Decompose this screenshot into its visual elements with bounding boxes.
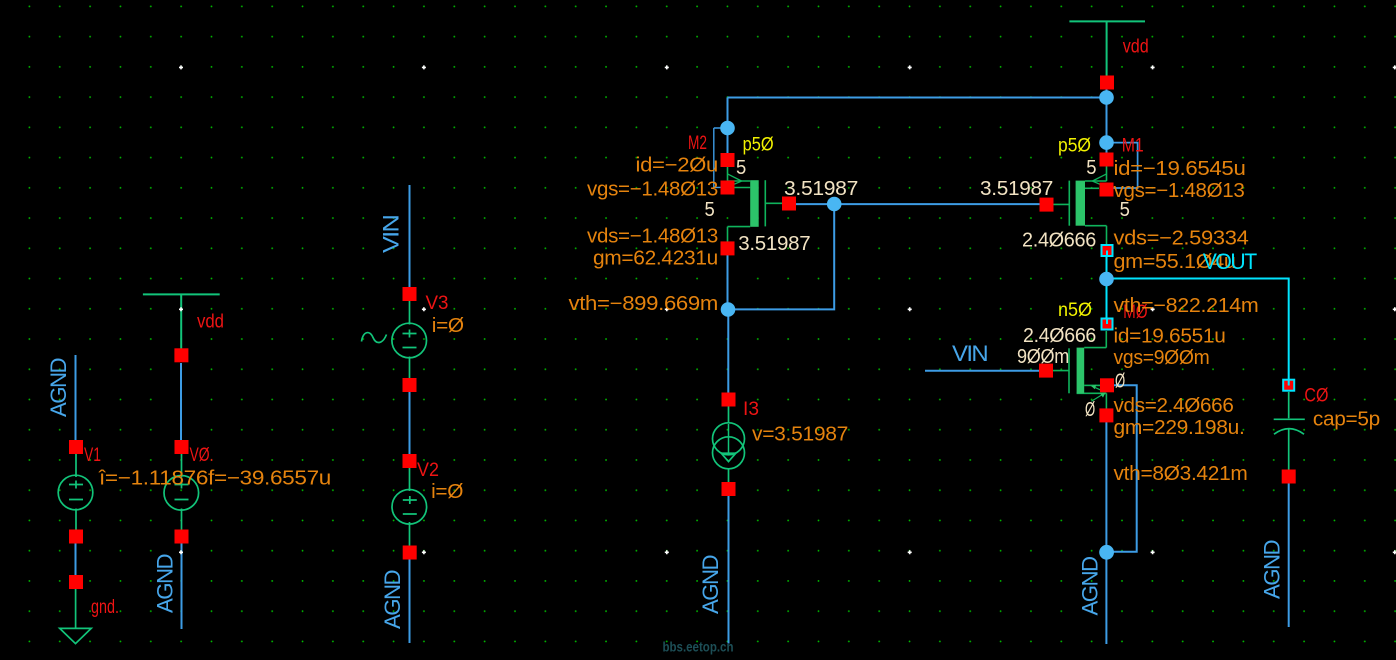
svg-text:VOUT: VOUT bbox=[1203, 249, 1257, 274]
svg-text:I3: I3 bbox=[743, 399, 759, 420]
svg-text:vdd: vdd bbox=[197, 312, 224, 333]
svg-text:3.51987: 3.51987 bbox=[738, 233, 810, 255]
svg-text:V2: V2 bbox=[417, 460, 439, 481]
svg-text:p5Ø: p5Ø bbox=[743, 135, 774, 156]
svg-text:AGND: AGND bbox=[698, 555, 723, 614]
svg-text:5: 5 bbox=[705, 199, 715, 221]
svg-text:gnd.: gnd. bbox=[91, 597, 119, 618]
svg-text:2.4Ø666: 2.4Ø666 bbox=[1022, 230, 1096, 252]
svg-text:M2: M2 bbox=[688, 133, 707, 154]
svg-text:vds=−1.48Ø13: vds=−1.48Ø13 bbox=[587, 226, 718, 248]
svg-text:gm=62.4231u: gm=62.4231u bbox=[593, 248, 718, 270]
svg-text:n5Ø: n5Ø bbox=[1058, 300, 1092, 321]
svg-text:vgs=−1.48Ø13: vgs=−1.48Ø13 bbox=[1114, 180, 1245, 202]
svg-text:vds=−2.59334: vds=−2.59334 bbox=[1114, 228, 1249, 250]
svg-text:VIN: VIN bbox=[952, 341, 988, 366]
svg-text:vth=8Ø3.421m: vth=8Ø3.421m bbox=[1114, 463, 1248, 485]
svg-text:Ø: Ø bbox=[1115, 371, 1125, 393]
svg-text:9ØØm: 9ØØm bbox=[1017, 346, 1069, 368]
svg-text:AGND: AGND bbox=[46, 358, 71, 417]
svg-text:V3: V3 bbox=[426, 293, 449, 314]
svg-text:cap=5p: cap=5p bbox=[1313, 409, 1380, 431]
svg-text:3.51987: 3.51987 bbox=[784, 178, 858, 200]
svg-text:v=3.51987: v=3.51987 bbox=[752, 424, 848, 446]
svg-text:id=−19.6545u: id=−19.6545u bbox=[1114, 158, 1246, 180]
svg-text:CØ: CØ bbox=[1304, 385, 1328, 406]
svg-text:VIN: VIN bbox=[379, 215, 404, 253]
svg-text:id=19.6551u: id=19.6551u bbox=[1114, 326, 1226, 348]
svg-text:i=Ø: i=Ø bbox=[432, 315, 464, 337]
svg-text:5: 5 bbox=[1120, 199, 1130, 221]
svg-text:vdd: vdd bbox=[1123, 36, 1149, 57]
svg-text:AGND: AGND bbox=[1260, 540, 1285, 599]
svg-text:p5Ø: p5Ø bbox=[1058, 136, 1091, 157]
svg-text:AGND: AGND bbox=[1078, 557, 1103, 616]
svg-text:AGND: AGND bbox=[380, 570, 405, 629]
svg-text:3.51987: 3.51987 bbox=[980, 178, 1053, 200]
svg-text:5: 5 bbox=[736, 157, 746, 179]
svg-text:gm=229.198u.: gm=229.198u. bbox=[1114, 417, 1245, 439]
svg-text:V1: V1 bbox=[84, 445, 101, 466]
svg-text:vth=−899.669m: vth=−899.669m bbox=[569, 293, 719, 315]
svg-text:2.4Ø666: 2.4Ø666 bbox=[1023, 325, 1096, 347]
svg-text:vgs=−1.48Ø13: vgs=−1.48Ø13 bbox=[587, 179, 718, 201]
svg-text:bbs.eetop.cn: bbs.eetop.cn bbox=[663, 639, 734, 655]
svg-text:AGND: AGND bbox=[153, 554, 178, 613]
svg-text:i=Ø: i=Ø bbox=[431, 481, 463, 503]
svg-text:î=−1.11876f=−39.6557u: î=−1.11876f=−39.6557u bbox=[98, 468, 331, 490]
svg-text:vth=−822.214m: vth=−822.214m bbox=[1114, 295, 1259, 317]
svg-text:id=−2Øu: id=−2Øu bbox=[636, 155, 719, 177]
svg-text:VØ.: VØ. bbox=[190, 445, 214, 466]
svg-text:vds=2.4Ø666: vds=2.4Ø666 bbox=[1114, 395, 1234, 417]
svg-text:5: 5 bbox=[1086, 157, 1096, 179]
svg-text:Ø: Ø bbox=[1085, 399, 1095, 421]
svg-text:vgs=9ØØm: vgs=9ØØm bbox=[1114, 347, 1210, 369]
svg-text:M1: M1 bbox=[1122, 136, 1144, 157]
